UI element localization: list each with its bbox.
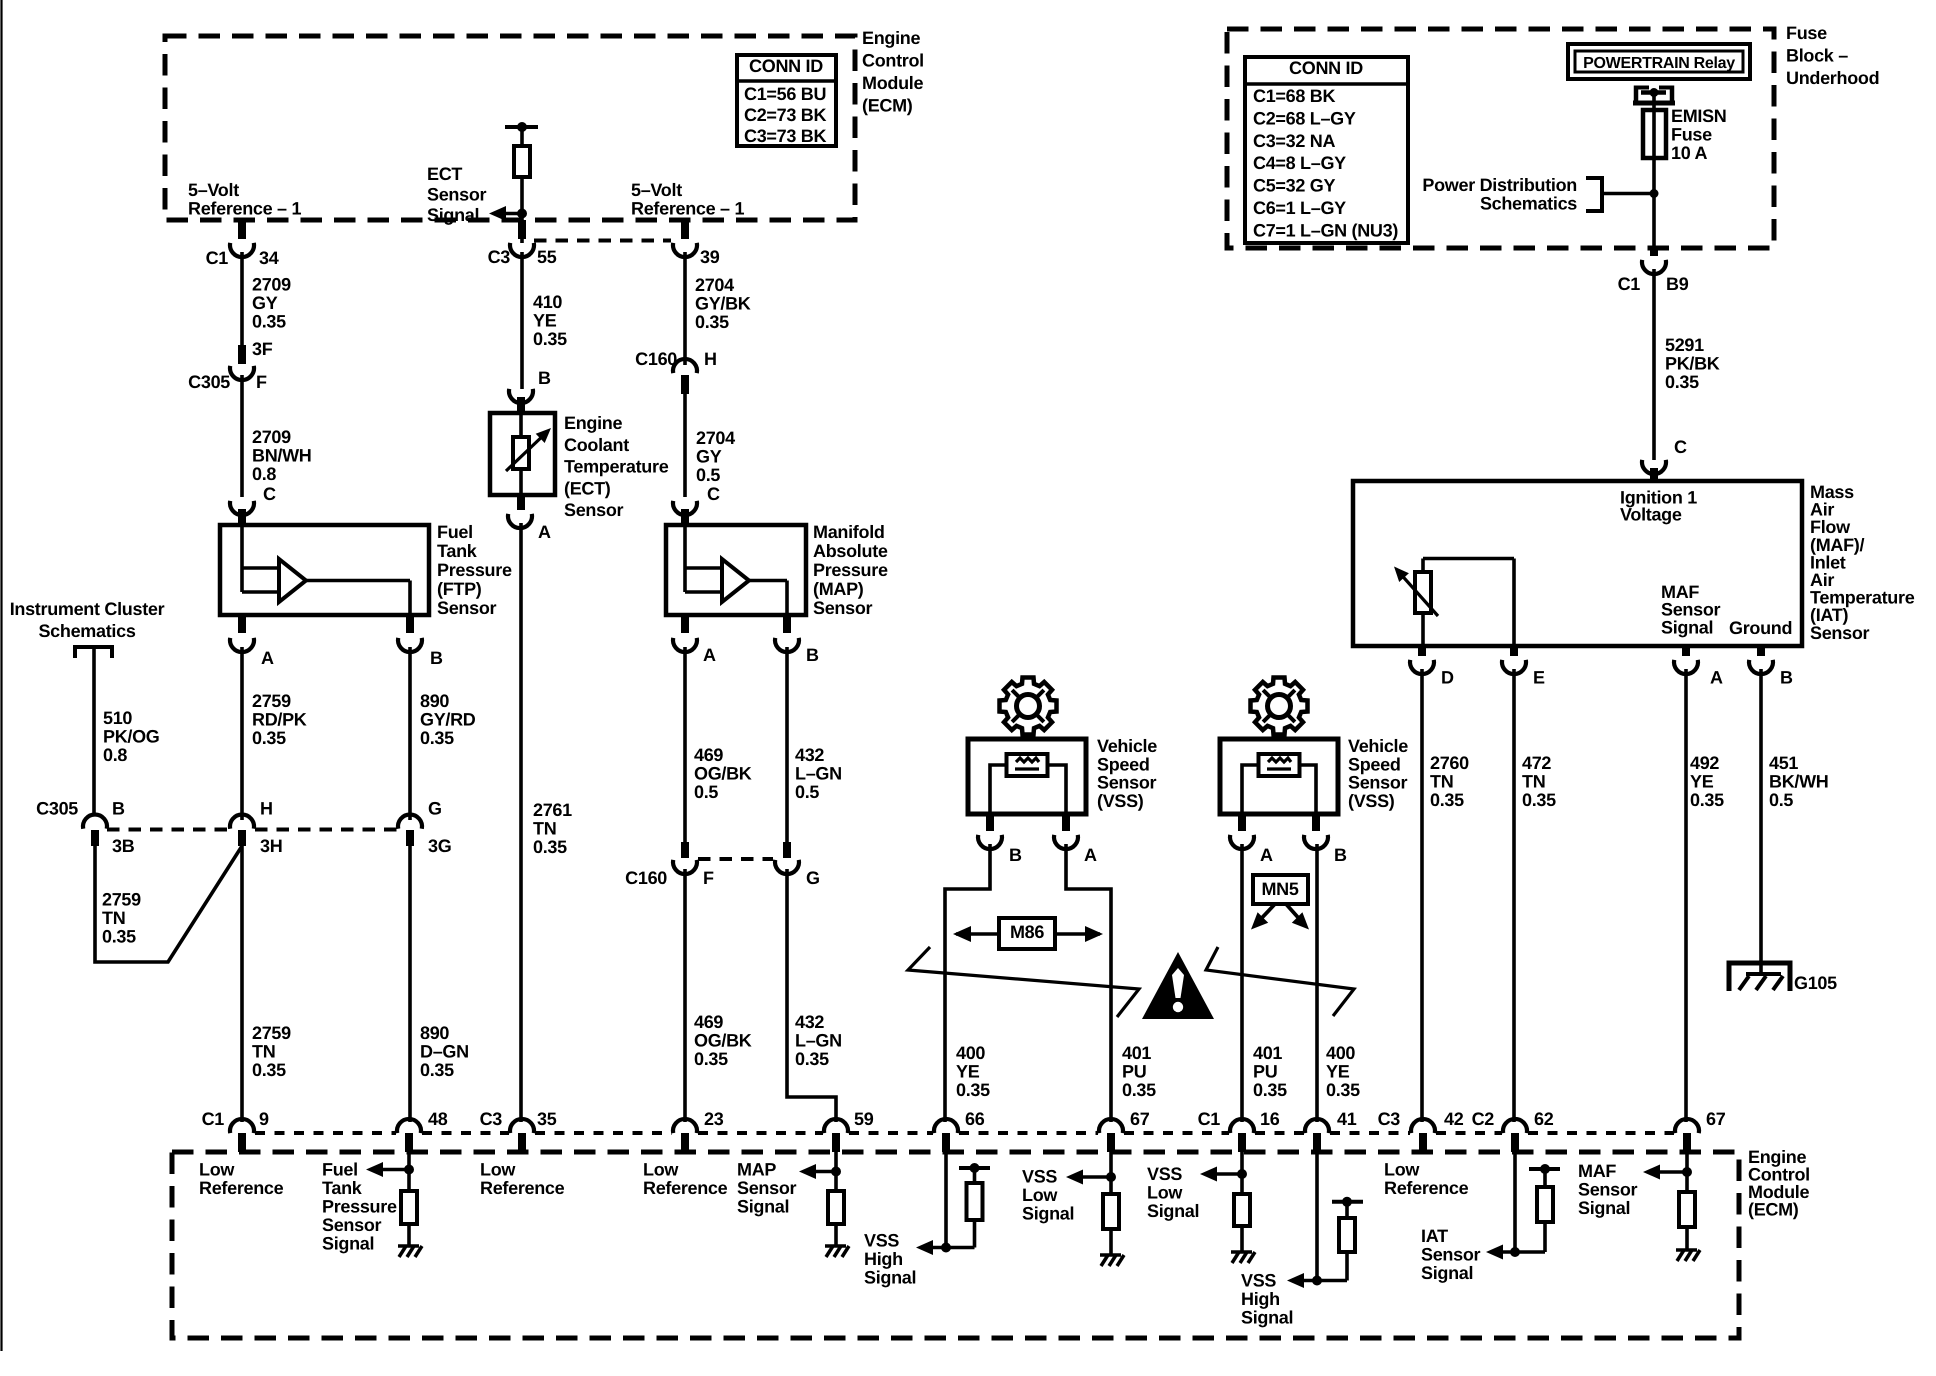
svg-text:Reference: Reference — [1384, 1178, 1469, 1198]
svg-text:C7=1 L–GN (NU3): C7=1 L–GN (NU3) — [1253, 220, 1398, 240]
svg-text:C160: C160 — [625, 868, 667, 888]
svg-text:A: A — [261, 648, 274, 668]
svg-text:VSS: VSS — [1241, 1271, 1276, 1291]
svg-text:451: 451 — [1769, 753, 1798, 773]
svg-text:C1: C1 — [206, 248, 229, 268]
svg-text:2761: 2761 — [533, 800, 572, 820]
svg-text:0.35: 0.35 — [695, 312, 729, 332]
svg-text:TN: TN — [1522, 772, 1545, 792]
svg-text:Signal: Signal — [1241, 1308, 1293, 1328]
svg-text:0.5: 0.5 — [795, 782, 819, 802]
svg-text:35: 35 — [537, 1109, 557, 1129]
svg-text:C305: C305 — [188, 372, 230, 392]
svg-text:0.35: 0.35 — [1690, 790, 1724, 810]
svg-text:C1: C1 — [1198, 1109, 1221, 1129]
svg-text:C: C — [707, 484, 720, 504]
svg-text:Control: Control — [862, 51, 924, 71]
svg-text:G105: G105 — [1794, 973, 1837, 993]
svg-text:Ground: Ground — [1729, 618, 1792, 638]
svg-text:C1: C1 — [202, 1109, 225, 1129]
svg-text:L–GN: L–GN — [795, 1031, 842, 1051]
svg-text:66: 66 — [965, 1109, 985, 1129]
svg-text:Sensor: Sensor — [1097, 773, 1157, 793]
svg-text:Sensor: Sensor — [437, 598, 497, 618]
svg-text:C1: C1 — [1618, 274, 1641, 294]
svg-text:Reference: Reference — [480, 1178, 565, 1198]
svg-text:D–GN: D–GN — [420, 1042, 469, 1062]
svg-text:432: 432 — [795, 1012, 824, 1032]
svg-text:Reference: Reference — [643, 1178, 728, 1198]
svg-text:3B: 3B — [112, 836, 135, 856]
svg-text:A: A — [703, 645, 716, 665]
svg-text:C6=1 L–GY: C6=1 L–GY — [1253, 198, 1346, 218]
svg-text:C: C — [263, 484, 276, 504]
svg-text:Tank: Tank — [437, 541, 478, 561]
svg-text:MAF: MAF — [1578, 1161, 1616, 1181]
svg-text:890: 890 — [420, 1023, 449, 1043]
svg-text:0.35: 0.35 — [533, 837, 567, 857]
svg-text:2709: 2709 — [252, 275, 291, 295]
svg-text:23: 23 — [704, 1109, 724, 1129]
svg-text:C3=32 NA: C3=32 NA — [1253, 131, 1335, 151]
svg-text:0.5: 0.5 — [694, 782, 718, 802]
svg-text:B: B — [1334, 845, 1347, 865]
svg-text:Signal: Signal — [427, 205, 479, 225]
svg-text:0.35: 0.35 — [1665, 372, 1699, 392]
svg-text:492: 492 — [1690, 753, 1719, 773]
svg-text:Low: Low — [1147, 1183, 1183, 1203]
svg-text:410: 410 — [533, 292, 562, 312]
svg-text:62: 62 — [1534, 1109, 1554, 1129]
svg-text:(VSS): (VSS) — [1097, 791, 1144, 811]
svg-text:GY/RD: GY/RD — [420, 710, 476, 730]
svg-text:400: 400 — [956, 1043, 985, 1063]
svg-text:2759: 2759 — [252, 1023, 291, 1043]
svg-text:Signal: Signal — [1661, 617, 1713, 637]
svg-text:(MAP): (MAP) — [813, 579, 864, 599]
svg-text:Schematics: Schematics — [1480, 194, 1577, 214]
svg-text:Underhood: Underhood — [1786, 68, 1879, 88]
svg-text:0.35: 0.35 — [252, 728, 286, 748]
svg-text:Pressure: Pressure — [322, 1196, 397, 1216]
svg-text:48: 48 — [428, 1109, 448, 1129]
svg-text:59: 59 — [854, 1109, 874, 1129]
svg-text:MAP: MAP — [737, 1160, 776, 1180]
svg-text:890: 890 — [420, 691, 449, 711]
svg-text:0.35: 0.35 — [956, 1080, 990, 1100]
svg-text:OG/BK: OG/BK — [694, 1031, 752, 1051]
svg-text:Speed: Speed — [1097, 754, 1150, 774]
svg-text:0.35: 0.35 — [1430, 790, 1464, 810]
svg-text:Coolant: Coolant — [564, 435, 629, 455]
svg-text:Sensor: Sensor — [813, 598, 873, 618]
svg-text:2709: 2709 — [252, 427, 291, 447]
svg-text:A: A — [538, 522, 551, 542]
svg-text:469: 469 — [694, 745, 723, 765]
svg-text:42: 42 — [1444, 1109, 1464, 1129]
svg-text:H: H — [260, 799, 273, 819]
svg-text:2704: 2704 — [696, 428, 735, 448]
svg-text:M86: M86 — [1010, 922, 1044, 942]
svg-text:C2=68 L–GY: C2=68 L–GY — [1253, 108, 1356, 128]
svg-text:Sensor: Sensor — [564, 500, 624, 520]
svg-text:BN/WH: BN/WH — [252, 446, 312, 466]
svg-text:Sensor: Sensor — [1578, 1180, 1638, 1200]
svg-text:(ECT): (ECT) — [564, 478, 611, 498]
svg-text:Absolute: Absolute — [813, 541, 888, 561]
svg-text:41: 41 — [1337, 1109, 1357, 1129]
svg-text:GY/BK: GY/BK — [695, 294, 751, 314]
svg-text:3F: 3F — [252, 339, 273, 359]
svg-text:0.35: 0.35 — [102, 927, 136, 947]
svg-text:Low: Low — [480, 1159, 516, 1179]
svg-text:Signal: Signal — [737, 1197, 789, 1217]
svg-text:Sensor: Sensor — [1348, 773, 1408, 793]
svg-text:Fuse: Fuse — [1671, 125, 1712, 145]
svg-text:D: D — [1441, 668, 1454, 688]
svg-text:0.35: 0.35 — [1253, 1080, 1287, 1100]
svg-text:Engine: Engine — [564, 413, 622, 433]
svg-text:67: 67 — [1706, 1109, 1726, 1129]
svg-text:Low: Low — [199, 1159, 235, 1179]
svg-text:GY: GY — [252, 293, 278, 313]
svg-text:YE: YE — [1326, 1062, 1350, 1082]
svg-text:Vehicle: Vehicle — [1097, 736, 1157, 756]
svg-text:469: 469 — [694, 1012, 723, 1032]
svg-text:High: High — [864, 1249, 903, 1269]
svg-text:Fuse: Fuse — [1786, 23, 1827, 43]
svg-text:B9: B9 — [1666, 274, 1689, 294]
svg-text:0.35: 0.35 — [420, 1060, 454, 1080]
svg-text:C4=8 L–GY: C4=8 L–GY — [1253, 153, 1346, 173]
svg-text:Reference: Reference — [199, 1178, 284, 1198]
svg-text:YE: YE — [533, 311, 557, 331]
svg-text:3H: 3H — [260, 836, 282, 856]
svg-text:0.35: 0.35 — [795, 1049, 829, 1069]
svg-text:TN: TN — [1430, 772, 1453, 792]
svg-text:55: 55 — [537, 247, 557, 267]
svg-text:A: A — [1260, 845, 1273, 865]
svg-text:MN5: MN5 — [1261, 879, 1298, 899]
svg-text:0.35: 0.35 — [1522, 790, 1556, 810]
svg-text:G: G — [428, 799, 442, 819]
svg-text:L–GN: L–GN — [795, 764, 842, 784]
svg-text:16: 16 — [1260, 1109, 1280, 1129]
svg-text:B: B — [112, 799, 125, 819]
svg-text:Reference – 1: Reference – 1 — [188, 199, 301, 219]
svg-text:F: F — [256, 372, 267, 392]
svg-text:F: F — [703, 868, 714, 888]
svg-text:400: 400 — [1326, 1043, 1355, 1063]
svg-text:POWERTRAIN Relay: POWERTRAIN Relay — [1583, 55, 1735, 72]
svg-text:0.35: 0.35 — [420, 728, 454, 748]
svg-text:B: B — [538, 368, 551, 388]
svg-text:C5=32 GY: C5=32 GY — [1253, 176, 1335, 196]
svg-text:Sensor: Sensor — [737, 1178, 797, 1198]
svg-text:YE: YE — [956, 1062, 980, 1082]
svg-text:3G: 3G — [428, 836, 451, 856]
svg-text:Signal: Signal — [1578, 1198, 1630, 1218]
svg-text:Power Distribution: Power Distribution — [1422, 175, 1577, 195]
svg-text:2760: 2760 — [1430, 753, 1469, 773]
svg-text:B: B — [1780, 668, 1793, 688]
svg-text:Tank: Tank — [322, 1178, 363, 1198]
svg-text:B: B — [806, 645, 819, 665]
svg-text:Module: Module — [862, 73, 923, 93]
svg-text:2759: 2759 — [252, 691, 291, 711]
svg-text:RD/PK: RD/PK — [252, 710, 307, 730]
svg-text:39: 39 — [700, 247, 720, 267]
svg-text:H: H — [704, 349, 717, 369]
svg-text:C2=73 BK: C2=73 BK — [744, 105, 826, 125]
svg-text:2759: 2759 — [102, 890, 141, 910]
svg-text:401: 401 — [1253, 1043, 1282, 1063]
svg-text:Instrument Cluster: Instrument Cluster — [10, 599, 165, 619]
svg-text:Pressure: Pressure — [813, 560, 888, 580]
svg-text:0.35: 0.35 — [252, 1060, 286, 1080]
svg-text:C: C — [1674, 437, 1687, 457]
svg-text:CONN ID: CONN ID — [749, 56, 823, 76]
svg-text:Vehicle: Vehicle — [1348, 736, 1408, 756]
svg-text:5291: 5291 — [1665, 335, 1704, 355]
svg-text:BK/WH: BK/WH — [1769, 772, 1829, 792]
svg-text:Reference – 1: Reference – 1 — [631, 199, 744, 219]
svg-text:PK/BK: PK/BK — [1665, 354, 1720, 374]
svg-text:TN: TN — [252, 1042, 275, 1062]
svg-text:Signal: Signal — [864, 1267, 916, 1287]
svg-text:67: 67 — [1130, 1109, 1150, 1129]
svg-text:High: High — [1241, 1289, 1280, 1309]
svg-text:IAT: IAT — [1421, 1226, 1448, 1246]
svg-text:C160: C160 — [635, 349, 677, 369]
svg-text:B: B — [430, 648, 443, 668]
svg-text:0.35: 0.35 — [252, 312, 286, 332]
svg-text:ECT: ECT — [427, 164, 462, 184]
svg-text:B: B — [1009, 845, 1022, 865]
svg-text:VSS: VSS — [864, 1230, 899, 1250]
svg-text:Sensor: Sensor — [1810, 623, 1870, 643]
svg-text:0.5: 0.5 — [1769, 790, 1793, 810]
svg-text:Low: Low — [1384, 1159, 1420, 1179]
svg-text:Pressure: Pressure — [437, 560, 512, 580]
svg-text:Low: Low — [643, 1159, 679, 1179]
svg-text:C3: C3 — [488, 247, 511, 267]
svg-text:0.8: 0.8 — [103, 745, 127, 765]
svg-text:9: 9 — [259, 1109, 269, 1129]
svg-text:0.5: 0.5 — [696, 465, 720, 485]
svg-text:Signal: Signal — [1421, 1263, 1473, 1283]
svg-text:Sensor: Sensor — [1421, 1245, 1481, 1265]
svg-text:510: 510 — [103, 708, 132, 728]
svg-text:Signal: Signal — [1147, 1201, 1199, 1221]
svg-text:Block –: Block – — [1786, 46, 1848, 66]
svg-text:(ECM): (ECM) — [862, 96, 913, 116]
svg-text:401: 401 — [1122, 1043, 1151, 1063]
svg-text:432: 432 — [795, 745, 824, 765]
svg-text:2704: 2704 — [695, 275, 734, 295]
svg-text:0.35: 0.35 — [533, 329, 567, 349]
svg-text:34: 34 — [259, 248, 279, 268]
svg-text:TN: TN — [533, 819, 556, 839]
svg-text:PK/OG: PK/OG — [103, 727, 160, 747]
svg-text:Low: Low — [1022, 1185, 1058, 1205]
svg-text:E: E — [1533, 668, 1545, 688]
svg-text:Fuel: Fuel — [437, 522, 473, 542]
svg-text:GY: GY — [696, 447, 722, 467]
svg-text:PU: PU — [1253, 1062, 1277, 1082]
svg-text:472: 472 — [1522, 753, 1551, 773]
svg-text:C2: C2 — [1472, 1109, 1495, 1129]
svg-text:5–Volt: 5–Volt — [631, 180, 682, 200]
svg-text:TN: TN — [102, 908, 125, 928]
svg-text:0.35: 0.35 — [1122, 1080, 1156, 1100]
svg-text:Sensor: Sensor — [322, 1215, 382, 1235]
svg-text:A: A — [1084, 845, 1097, 865]
svg-text:Speed: Speed — [1348, 754, 1401, 774]
svg-text:Signal: Signal — [322, 1233, 374, 1253]
svg-text:OG/BK: OG/BK — [694, 764, 752, 784]
svg-text:10 A: 10 A — [1671, 143, 1707, 163]
svg-text:YE: YE — [1690, 772, 1714, 792]
svg-text:C1=56 BU: C1=56 BU — [744, 84, 826, 104]
svg-text:(VSS): (VSS) — [1348, 791, 1395, 811]
svg-text:Sensor: Sensor — [427, 185, 487, 205]
svg-text:C3: C3 — [480, 1109, 503, 1129]
svg-text:(FTP): (FTP) — [437, 579, 482, 599]
svg-text:C3=73 BK: C3=73 BK — [744, 126, 826, 146]
svg-text:EMISN: EMISN — [1671, 106, 1727, 126]
svg-text:C3: C3 — [1378, 1109, 1401, 1129]
svg-text:5–Volt: 5–Volt — [188, 180, 239, 200]
svg-text:(ECM): (ECM) — [1748, 1200, 1799, 1220]
svg-text:CONN ID: CONN ID — [1289, 58, 1363, 78]
svg-text:Manifold: Manifold — [813, 522, 885, 542]
svg-text:0.8: 0.8 — [252, 464, 276, 484]
svg-text:VSS: VSS — [1147, 1164, 1182, 1184]
svg-text:Signal: Signal — [1022, 1203, 1074, 1223]
svg-text:C305: C305 — [36, 799, 78, 819]
svg-text:0.35: 0.35 — [694, 1049, 728, 1069]
svg-text:Engine: Engine — [862, 28, 920, 48]
svg-text:0.35: 0.35 — [1326, 1080, 1360, 1100]
svg-text:VSS: VSS — [1022, 1166, 1057, 1186]
svg-text:C1=68 BK: C1=68 BK — [1253, 86, 1335, 106]
svg-text:Schematics: Schematics — [38, 621, 135, 641]
svg-text:G: G — [806, 868, 820, 888]
svg-text:Temperature: Temperature — [564, 457, 669, 477]
svg-text:Voltage: Voltage — [1620, 505, 1682, 525]
svg-text:A: A — [1710, 668, 1723, 688]
svg-text:PU: PU — [1122, 1062, 1146, 1082]
svg-text:Fuel: Fuel — [322, 1159, 358, 1179]
